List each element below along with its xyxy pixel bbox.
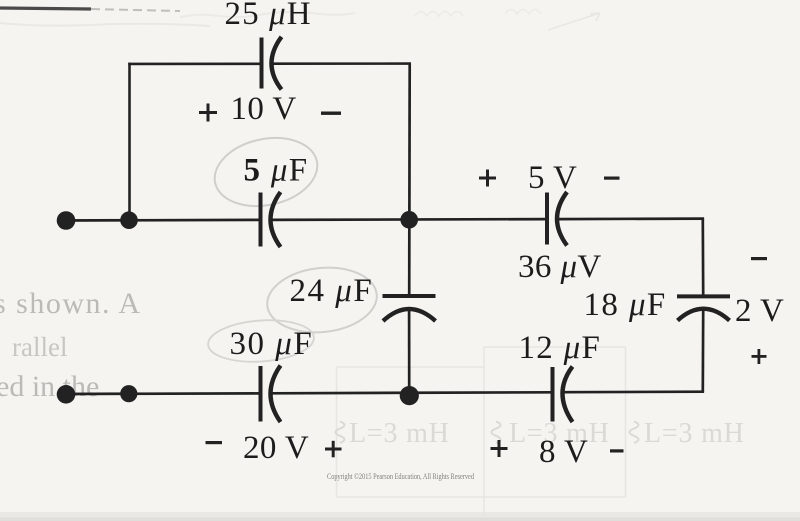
svg-text:Copyright ©2015 Pearson Educat: Copyright ©2015 Pearson Education, All R…: [327, 472, 474, 481]
svg-text:rallel: rallel: [12, 332, 67, 362]
svg-text:L=3 mH: L=3 mH: [644, 418, 745, 449]
svg-text:36 μV: 36 μV: [518, 249, 602, 285]
svg-text:5 μF: 5 μF: [244, 153, 309, 189]
svg-text:25 μH: 25 μH: [225, 0, 312, 32]
svg-text:30 μF: 30 μF: [230, 326, 314, 362]
svg-text:12 μF: 12 μF: [519, 330, 602, 366]
svg-text:5 V: 5 V: [528, 160, 577, 196]
svg-text:10 V: 10 V: [231, 91, 297, 127]
svg-text:s shown. A: s shown. A: [0, 287, 142, 320]
svg-text:20 V: 20 V: [243, 430, 309, 466]
svg-text:24 μF: 24 μF: [290, 273, 374, 309]
svg-text:8 V: 8 V: [539, 434, 588, 470]
svg-text:18 μF: 18 μF: [584, 287, 667, 323]
svg-text:2 V: 2 V: [735, 293, 784, 329]
svg-text:L=3 mH: L=3 mH: [349, 418, 450, 449]
svg-text:ed in the: ed in the: [0, 370, 99, 403]
